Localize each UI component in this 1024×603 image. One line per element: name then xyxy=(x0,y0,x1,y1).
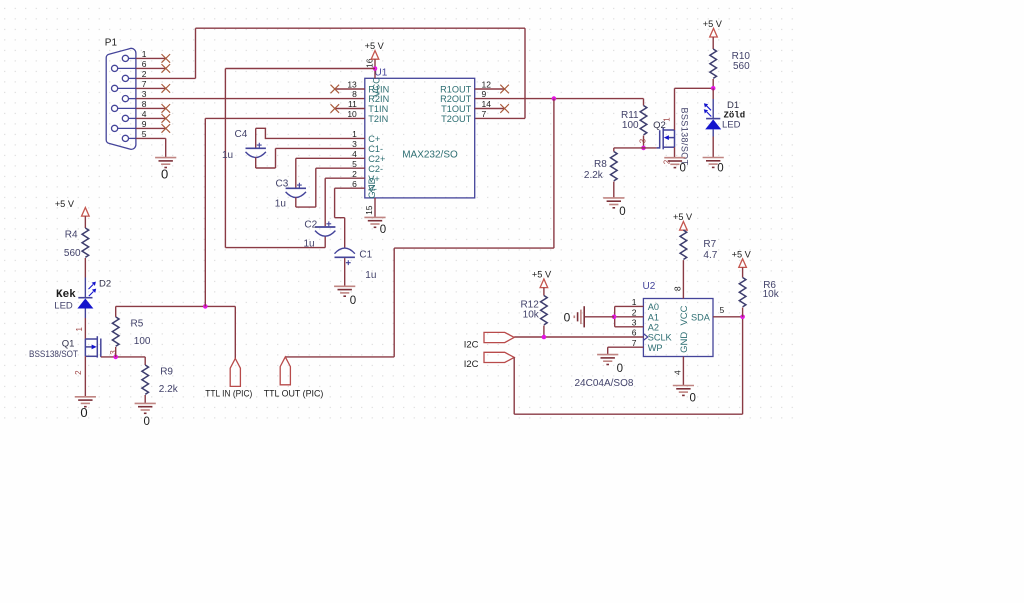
resistor R9 xyxy=(142,365,149,394)
wire U2 pin2 A1 xyxy=(615,316,644,318)
ground at R9 xyxy=(135,403,156,413)
connector P1 outline xyxy=(106,48,136,149)
svg-text:LED: LED xyxy=(722,119,741,130)
svg-text:4.7: 4.7 xyxy=(703,250,717,261)
port I2C lower xyxy=(484,352,514,362)
svg-text:15: 15 xyxy=(364,205,374,215)
junction U1 pin16 +5V xyxy=(373,66,378,71)
wire R9 to ground xyxy=(144,395,146,403)
no-connect X xyxy=(500,85,509,94)
ground at Q1 source xyxy=(75,397,96,407)
wire to TTL IN xyxy=(234,306,236,358)
svg-text:T2OUT: T2OUT xyxy=(441,114,472,124)
svg-text:+5 V: +5 V xyxy=(365,41,385,51)
resistor R5 xyxy=(112,317,119,346)
P1 NC pin wire xyxy=(136,87,166,89)
wire to C4 top xyxy=(255,128,257,147)
capacitor C4 xyxy=(246,143,266,158)
P1 pin 6 circle xyxy=(112,65,118,71)
wire to R9 xyxy=(144,357,146,365)
wire xyxy=(256,127,266,129)
svg-text:100: 100 xyxy=(622,120,639,131)
wire to C3 top xyxy=(295,158,297,187)
wire U2 pin5 SDA xyxy=(713,316,743,318)
resistor R10 xyxy=(710,49,717,78)
wire xyxy=(334,188,336,218)
wire V+ net left xyxy=(225,68,375,70)
wire xyxy=(315,168,317,207)
U1 NC pin stub xyxy=(475,108,505,110)
svg-text:12: 12 xyxy=(482,80,492,90)
wire R4 to D2 xyxy=(84,258,86,278)
wire +5V to R12 xyxy=(543,288,545,296)
svg-text:1u: 1u xyxy=(365,270,376,281)
+5V power at R7 xyxy=(680,222,688,231)
capacitor C1 xyxy=(335,248,355,265)
wire D2 to Q1 drain xyxy=(84,318,86,339)
rotated ground at A pins xyxy=(574,306,584,327)
wire D2 cathode pin xyxy=(84,309,86,319)
svg-text:T1OUT: T1OUT xyxy=(441,104,472,114)
svg-text:1: 1 xyxy=(662,117,671,122)
svg-text:1u: 1u xyxy=(275,198,286,209)
ground at U2 pin4 xyxy=(673,386,694,396)
wire R5 bottom xyxy=(115,347,117,357)
svg-text:2: 2 xyxy=(142,69,147,79)
wire U2 pin3 A2 xyxy=(615,326,644,328)
svg-text:4: 4 xyxy=(672,370,682,375)
P1 pin 5 circle xyxy=(122,135,128,141)
wire to D1 xyxy=(712,88,714,99)
junction SDA/R6 xyxy=(740,315,745,320)
wire +5V to U1 pin16 xyxy=(374,59,376,78)
ground at P1 pin5 xyxy=(155,158,176,168)
svg-text:0: 0 xyxy=(80,405,87,420)
svg-text:5: 5 xyxy=(142,129,147,139)
Q1 body arrow xyxy=(92,345,97,350)
svg-text:3: 3 xyxy=(352,139,357,149)
wire C4 bottom xyxy=(255,157,257,168)
wire C2 bottom xyxy=(324,236,326,247)
wire A0-A2 bus xyxy=(614,306,616,326)
U1 NC pin stub xyxy=(335,108,365,110)
wire +5V to R6 xyxy=(742,267,744,277)
IC U2 24C04 body xyxy=(643,299,713,357)
U1 NC pin stub xyxy=(475,88,505,90)
svg-text:C2+: C2+ xyxy=(368,154,385,164)
svg-text:560: 560 xyxy=(733,61,750,72)
svg-text:3: 3 xyxy=(142,89,147,99)
P1 pin 7 stub xyxy=(118,87,136,89)
svg-text:0: 0 xyxy=(619,206,625,218)
svg-text:2: 2 xyxy=(352,169,357,179)
svg-text:6: 6 xyxy=(352,179,357,189)
svg-text:R9: R9 xyxy=(160,366,173,377)
svg-text:MAX232/SO: MAX232/SO xyxy=(402,150,458,161)
wire +5V to R4 xyxy=(84,216,86,228)
svg-text:+5 V: +5 V xyxy=(532,269,552,279)
P1 pin 3 circle xyxy=(122,96,128,102)
port TTL OUT (PIC) xyxy=(280,357,290,385)
resistor R8 xyxy=(611,152,618,181)
D2 emission arrows xyxy=(89,282,97,297)
wire D1 anode pin xyxy=(712,99,714,119)
svg-text:C4: C4 xyxy=(235,129,248,140)
wire bottom SDA net xyxy=(514,413,742,415)
svg-text:GND: GND xyxy=(367,177,378,198)
transistor Q1 BSS138 symbol xyxy=(85,336,100,357)
svg-text:0: 0 xyxy=(564,310,571,324)
wire TTL OUT xyxy=(285,356,394,358)
wire U1 pin4 C2+ xyxy=(296,157,365,159)
junction Q2 gate xyxy=(641,146,646,151)
wire down to T2OUT xyxy=(524,28,526,118)
+5V power at R6 xyxy=(739,259,747,268)
no-connect X xyxy=(162,104,171,113)
svg-text:2.2k: 2.2k xyxy=(584,170,604,181)
svg-text:I2C: I2C xyxy=(464,359,479,370)
P1 NC pin wire xyxy=(136,127,166,129)
svg-text:8: 8 xyxy=(352,89,357,99)
wire gate row xyxy=(614,147,657,149)
wire Q1 gate row xyxy=(101,356,145,358)
svg-text:I2C: I2C xyxy=(464,339,479,350)
svg-text:TTL OUT (PIC): TTL OUT (PIC) xyxy=(264,388,324,398)
svg-text:560: 560 xyxy=(64,248,81,259)
svg-text:8: 8 xyxy=(142,99,147,109)
wire top net P1.2-T2OUT xyxy=(196,27,526,29)
svg-text:TTL IN (PIC): TTL IN (PIC) xyxy=(205,388,252,398)
wire V+ net to C2 bottom xyxy=(225,247,325,249)
wire SDA net up xyxy=(742,317,744,414)
wire to R11 xyxy=(643,99,645,106)
svg-text:C2-: C2- xyxy=(368,164,383,174)
wire U1 pin6 V- xyxy=(335,187,365,189)
svg-text:5: 5 xyxy=(352,159,357,169)
IC U1 MAX232 body xyxy=(365,78,475,198)
P1 pin 6 stub xyxy=(118,67,136,69)
svg-text:4: 4 xyxy=(142,109,147,119)
wire I2C lower down xyxy=(513,357,515,414)
dotted grid background xyxy=(0,0,796,427)
port I2C upper xyxy=(484,332,514,342)
wire U1 pin1 C+ xyxy=(265,137,364,139)
wire U2 pin7 WP xyxy=(608,346,644,348)
svg-text:A2: A2 xyxy=(648,323,659,333)
svg-text:1u: 1u xyxy=(304,238,315,249)
svg-text:T1IN: T1IN xyxy=(368,104,388,114)
svg-text:10k: 10k xyxy=(523,310,540,321)
wire D1 cathode pin xyxy=(712,129,714,136)
svg-text:SCLK: SCLK xyxy=(648,333,673,343)
svg-text:+5 V: +5 V xyxy=(732,249,752,259)
P1 NC pin wire xyxy=(136,107,166,109)
svg-text:0: 0 xyxy=(350,295,356,307)
svg-text:3: 3 xyxy=(638,138,647,143)
svg-text:+5 V: +5 V xyxy=(55,199,75,209)
svg-text:0: 0 xyxy=(380,224,386,236)
wire SCLK net xyxy=(514,336,643,338)
svg-text:C+: C+ xyxy=(368,134,380,144)
svg-text:C1: C1 xyxy=(359,250,372,261)
no-connect X xyxy=(162,124,171,133)
svg-text:VCC: VCC xyxy=(679,305,690,325)
ground at WP xyxy=(597,355,618,365)
P1 pin 1 circle xyxy=(122,55,128,61)
svg-text:R4: R4 xyxy=(65,230,78,241)
junction Q1 gate/R5/R9 xyxy=(113,355,118,360)
wire R11 to gate xyxy=(643,136,645,148)
svg-text:4: 4 xyxy=(352,149,357,159)
wire P1.2 xyxy=(136,77,196,79)
ground at R8 xyxy=(603,198,624,208)
svg-text:9: 9 xyxy=(482,89,487,99)
junction R2OUT xyxy=(552,96,557,101)
transistor Q2 BSS138 symbol xyxy=(657,128,675,149)
svg-text:9: 9 xyxy=(142,119,147,129)
svg-text:1: 1 xyxy=(142,49,147,59)
resistor R7 xyxy=(680,230,687,259)
no-connect X xyxy=(331,85,340,94)
LED D2 xyxy=(77,298,93,309)
svg-text:14: 14 xyxy=(482,99,492,109)
+5V power at R10 xyxy=(710,28,718,37)
junction R10/D1/Q2 xyxy=(711,86,716,91)
svg-text:1u: 1u xyxy=(222,150,233,161)
wire R2OUT net xyxy=(475,98,644,100)
wire drain to R10/D1 xyxy=(675,87,714,89)
Q2 body arrow xyxy=(664,135,669,140)
wire T2OUT pin 7 xyxy=(475,117,525,119)
svg-text:R7: R7 xyxy=(703,239,716,250)
svg-text:10: 10 xyxy=(347,109,357,119)
D1 emission arrows xyxy=(704,103,712,116)
P1 pin 1 stub xyxy=(129,57,136,59)
P1 pin 3 stub xyxy=(129,98,136,100)
P1 pin 2 circle xyxy=(122,75,128,81)
+5V power at R4 xyxy=(82,208,90,217)
svg-text:3: 3 xyxy=(632,317,637,327)
svg-text:100: 100 xyxy=(134,336,151,347)
svg-text:13: 13 xyxy=(347,80,357,90)
svg-text:8: 8 xyxy=(672,286,682,291)
wire WP down xyxy=(607,347,609,354)
wire P1.5 xyxy=(136,137,166,139)
no-connect X xyxy=(331,104,340,113)
P1 NC pin wire xyxy=(136,117,166,119)
svg-text:SDA: SDA xyxy=(691,313,711,323)
svg-text:24C04A/SO8: 24C04A/SO8 xyxy=(575,378,634,389)
resistor R6 xyxy=(739,278,746,307)
svg-text:10k: 10k xyxy=(763,289,780,300)
wire xyxy=(296,206,316,208)
svg-text:7: 7 xyxy=(632,338,637,348)
wire T2IN net row xyxy=(116,305,236,307)
svg-text:+5 V: +5 V xyxy=(703,19,723,29)
svg-text:0: 0 xyxy=(689,392,695,404)
svg-text:7: 7 xyxy=(142,79,147,89)
svg-text:0: 0 xyxy=(161,167,168,182)
svg-text:WP: WP xyxy=(648,343,663,353)
wire Q2 source down xyxy=(674,147,676,158)
svg-text:6: 6 xyxy=(142,59,147,69)
junction R12/SCLK xyxy=(542,335,547,340)
wire to C1 top xyxy=(344,218,346,249)
wire R7 to U2 pin8 xyxy=(682,260,684,298)
wire T2IN net vertical xyxy=(204,118,206,306)
svg-text:2: 2 xyxy=(632,307,637,317)
+5V power at U1 pin16 xyxy=(371,51,379,60)
port TTL IN (PIC) xyxy=(230,359,240,387)
P1 pin 9 circle xyxy=(112,125,118,131)
resistor R4 xyxy=(82,228,89,257)
svg-text:0: 0 xyxy=(717,162,723,174)
wire U1 pin15 to ground xyxy=(374,198,376,218)
ground at U1 pin15 xyxy=(364,217,385,227)
svg-text:C2: C2 xyxy=(304,219,317,230)
svg-text:T2IN: T2IN xyxy=(368,114,388,124)
U1 NC pin stub xyxy=(335,88,365,90)
svg-text:Kek: Kek xyxy=(56,289,76,301)
junction A-bus xyxy=(612,315,617,320)
resistor R12 xyxy=(541,296,548,325)
wire Q2 drain up xyxy=(674,88,676,130)
wire U1 pin2 V+ xyxy=(325,177,365,179)
wire P1.3-R2IN xyxy=(136,98,365,100)
wire xyxy=(256,167,276,169)
P1 NC pin wire xyxy=(136,57,166,59)
svg-text:2.2k: 2.2k xyxy=(159,384,179,395)
wire U2 pin1 A0 xyxy=(615,305,644,307)
svg-text:C3: C3 xyxy=(276,178,289,189)
svg-text:6: 6 xyxy=(632,328,637,338)
svg-text:1: 1 xyxy=(75,327,84,332)
svg-text:0: 0 xyxy=(679,163,685,175)
wire up xyxy=(195,28,197,78)
wire R8 to ground xyxy=(613,182,615,198)
svg-text:1: 1 xyxy=(632,297,637,307)
wire R2OUT down xyxy=(553,99,555,249)
P1 pin 4 circle xyxy=(122,115,128,121)
no-connect X xyxy=(162,54,171,63)
P1 pin 5 stub xyxy=(129,137,136,139)
wire xyxy=(335,217,345,219)
wire C1 to ground xyxy=(344,258,346,286)
svg-text:P1: P1 xyxy=(105,37,118,48)
ground at C1 xyxy=(334,286,355,296)
wire to R8 xyxy=(613,148,615,152)
svg-text:5: 5 xyxy=(720,305,725,315)
junction T2IN net xyxy=(203,304,208,309)
wire +5V to R10 xyxy=(712,37,714,49)
svg-text:LED: LED xyxy=(54,300,73,311)
no-connect X xyxy=(162,114,171,123)
svg-text:R2OUT: R2OUT xyxy=(440,94,472,104)
LED D1 xyxy=(705,119,721,130)
wire xyxy=(264,128,266,139)
U2 SCLK clock wedge xyxy=(643,334,647,341)
wire C3 bottom xyxy=(295,197,297,207)
svg-text:A0: A0 xyxy=(648,302,659,312)
resistor R11 xyxy=(640,106,647,135)
wire U1 pin10 T2IN xyxy=(205,117,364,119)
svg-text:D2: D2 xyxy=(99,279,111,290)
P1 NC pin wire xyxy=(136,67,166,69)
wire D1 to ground xyxy=(712,137,714,158)
svg-text:7: 7 xyxy=(482,109,487,119)
wire P1.5 down xyxy=(165,138,167,157)
no-connect X xyxy=(162,84,171,93)
wire U1 pin3 C1- xyxy=(276,147,365,149)
svg-text:2: 2 xyxy=(74,370,83,375)
no-connect X xyxy=(162,64,171,73)
P1 pin 2 stub xyxy=(129,77,136,79)
wire U1 pin5 C2- xyxy=(316,167,365,169)
no-connect X xyxy=(500,104,509,113)
svg-text:3: 3 xyxy=(109,350,118,355)
svg-text:GND: GND xyxy=(679,332,690,353)
ground at D1 xyxy=(703,158,724,168)
svg-text:VCC: VCC xyxy=(372,77,383,97)
svg-text:BSS138/SOT: BSS138/SOT xyxy=(29,349,78,359)
wire R2OUT left xyxy=(394,247,554,249)
P1 pin 4 stub xyxy=(129,117,136,119)
svg-text:A1: A1 xyxy=(648,313,659,323)
wire U2 pin4 down xyxy=(682,357,684,386)
wire R10 to junction xyxy=(712,79,714,88)
wire R5 top xyxy=(115,306,117,317)
capacitor C3 xyxy=(286,183,306,198)
P1 pin 8 circle xyxy=(112,105,118,111)
wire R12 bottom xyxy=(543,326,545,338)
svg-text:R5: R5 xyxy=(131,319,144,330)
P1 pin 7 circle xyxy=(112,85,118,91)
wire D2 anode pin xyxy=(84,278,86,298)
wire R6 bottom xyxy=(742,308,744,317)
wire to C2 top xyxy=(324,178,326,226)
wire down to TTL OUT xyxy=(393,248,395,357)
P1 pin 9 stub xyxy=(118,127,136,129)
svg-text:11: 11 xyxy=(348,99,357,109)
wire xyxy=(275,148,277,168)
wire Q1 source to ground xyxy=(84,356,86,397)
svg-text:U2: U2 xyxy=(643,281,656,292)
svg-text:0: 0 xyxy=(617,363,623,375)
P1 pin 8 stub xyxy=(118,107,136,109)
svg-text:C1-: C1- xyxy=(368,144,383,154)
ground at Q2 source xyxy=(664,158,685,168)
wire V+ net down xyxy=(224,69,226,248)
svg-text:+5 V: +5 V xyxy=(673,212,693,222)
svg-text:R1OUT: R1OUT xyxy=(440,85,472,95)
svg-text:0: 0 xyxy=(143,416,149,428)
wire A-bus to ground xyxy=(585,316,615,318)
+5V power at R12 xyxy=(540,279,548,288)
svg-text:1: 1 xyxy=(352,129,357,139)
svg-text:D1: D1 xyxy=(727,100,739,111)
capacitor C2 xyxy=(315,221,335,236)
svg-text:R8: R8 xyxy=(594,159,607,170)
